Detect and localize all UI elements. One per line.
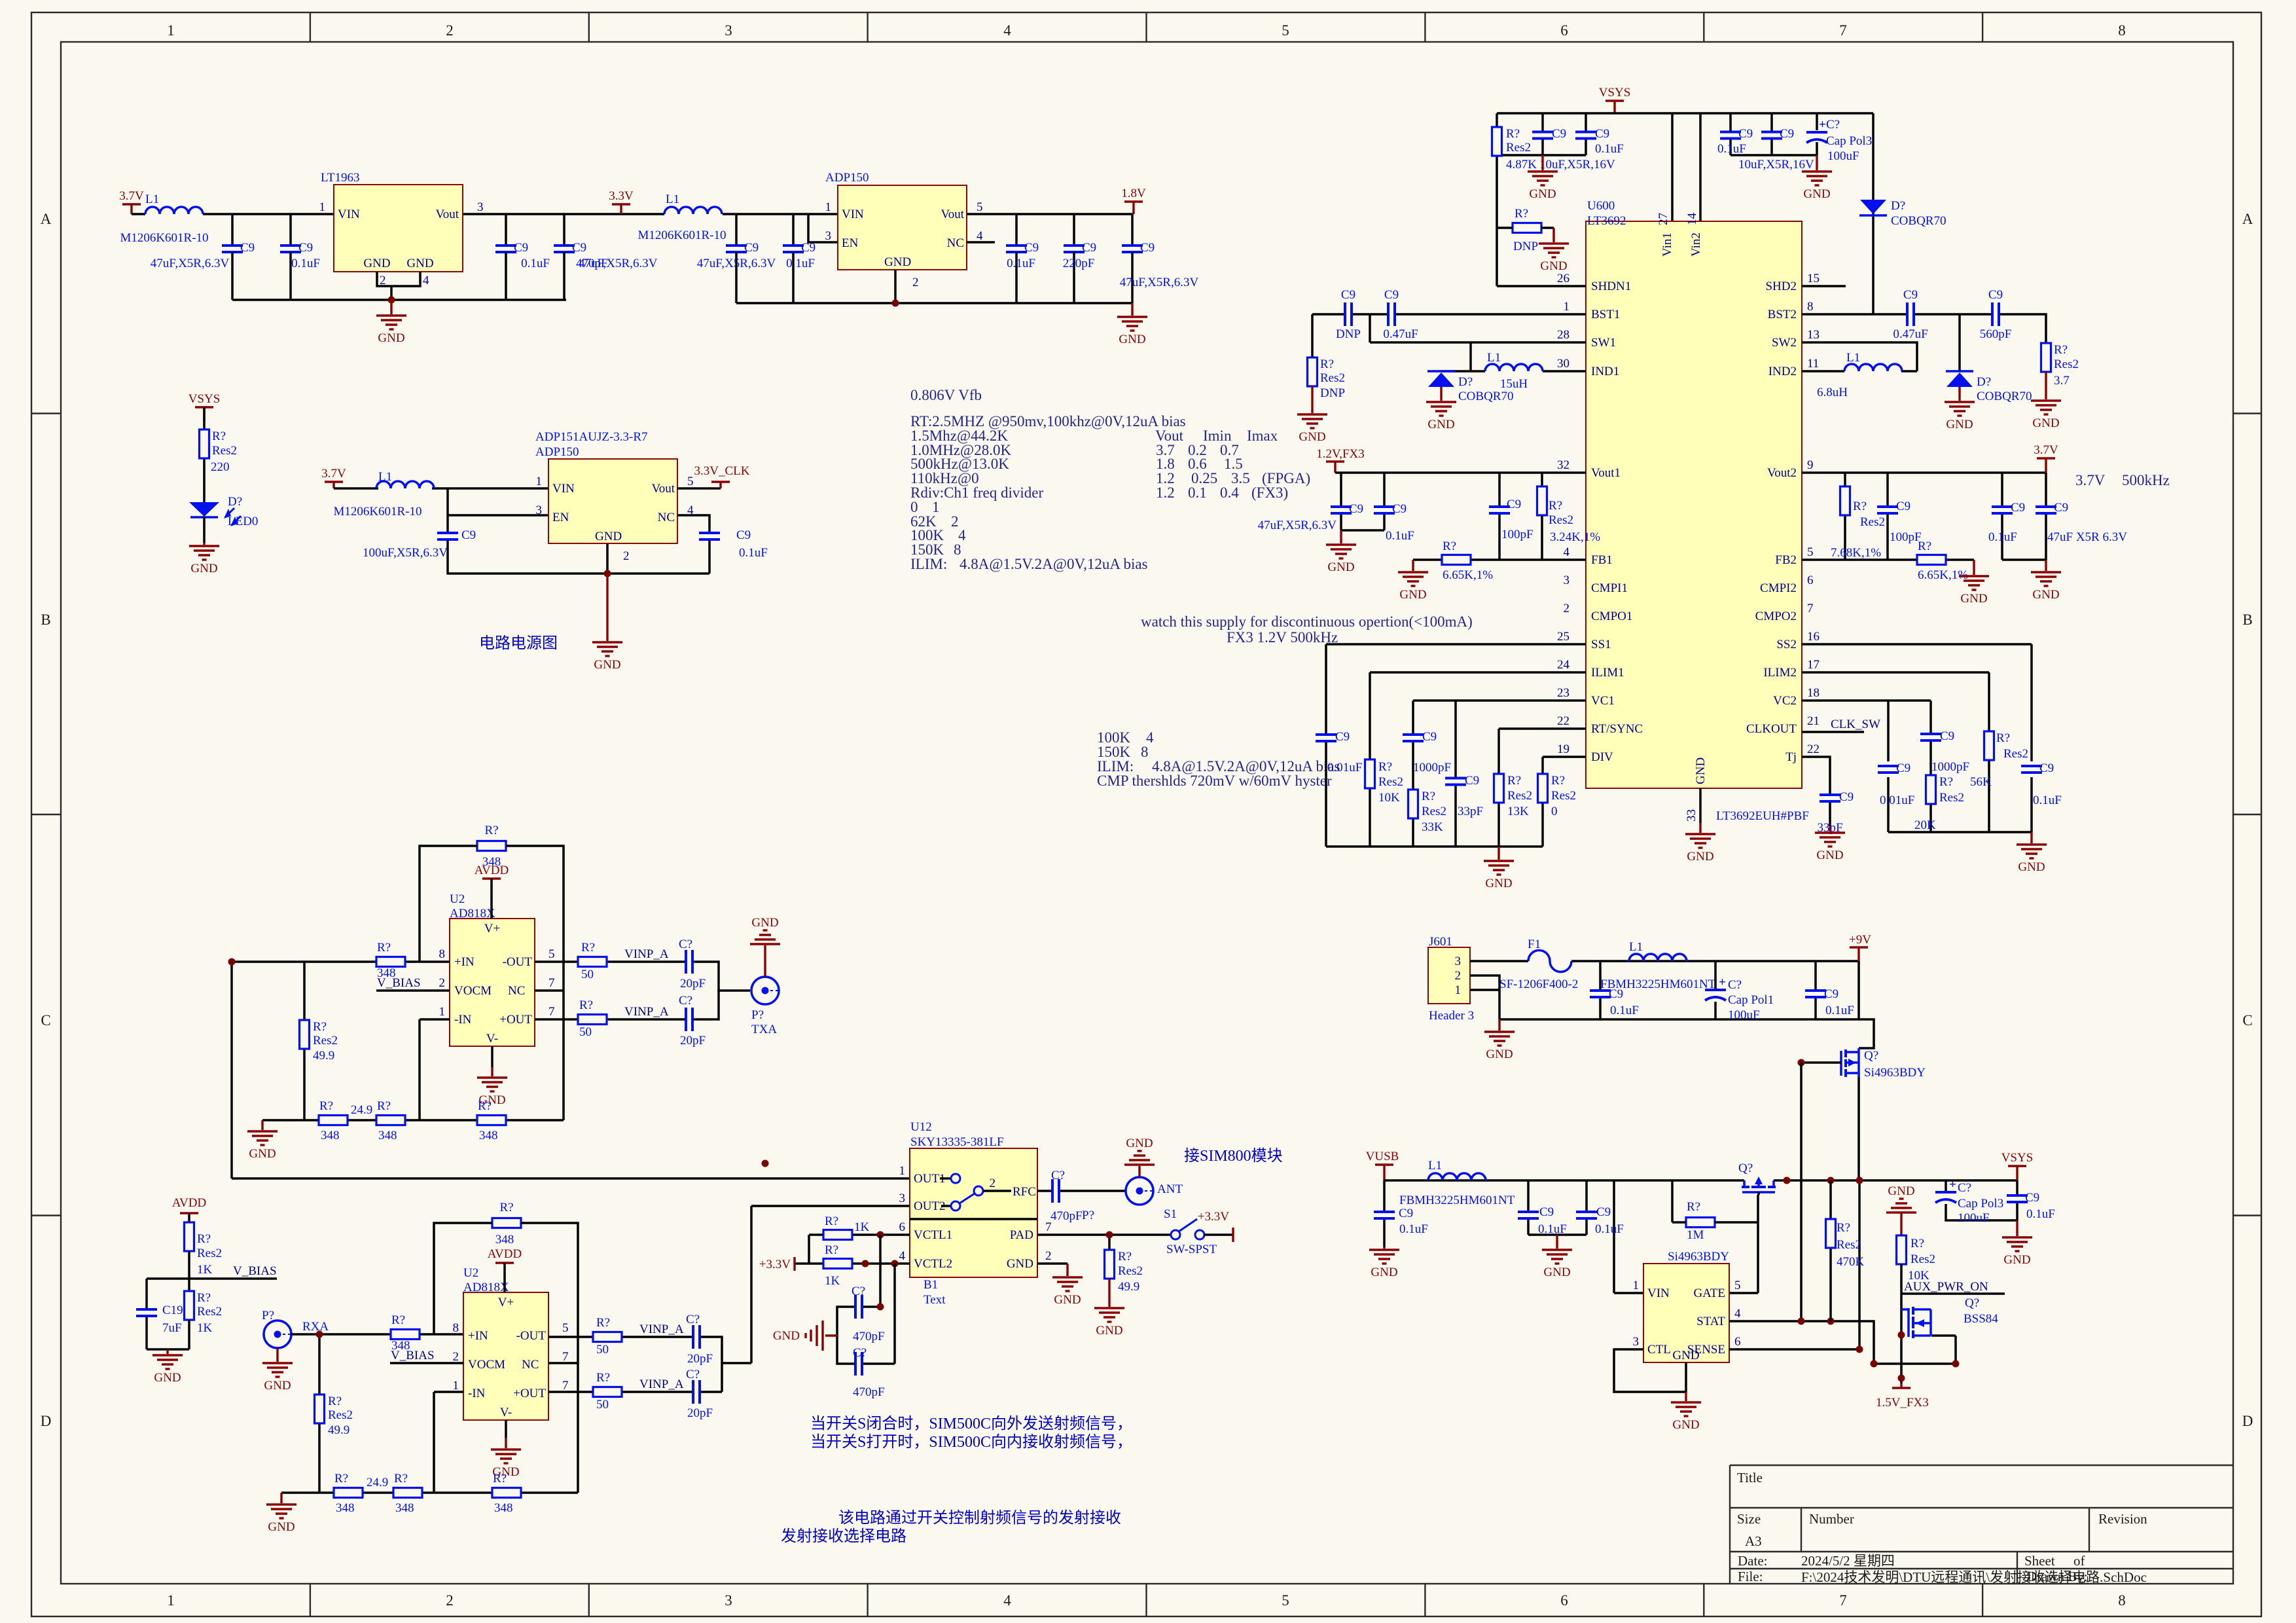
power port VSYS main bbox=[1605, 100, 1624, 101]
junction +IN bbox=[228, 958, 236, 966]
svg-text:0.1: 0.1 bbox=[1188, 484, 1207, 501]
svg-text:M1206K601R-10: M1206K601R-10 bbox=[120, 231, 208, 245]
svg-text:U2: U2 bbox=[463, 1266, 478, 1280]
svg-text:8: 8 bbox=[2118, 22, 2126, 39]
capacitor C9 10uF right bbox=[1760, 131, 1784, 140]
svg-text:25: 25 bbox=[1557, 630, 1570, 644]
svg-text:348: 348 bbox=[395, 1501, 414, 1515]
load switch U Si4963BDY bbox=[1643, 1264, 1729, 1362]
ground bottom-right rail bbox=[2030, 832, 2032, 843]
resistor R? 50 lower1 bbox=[593, 1332, 622, 1342]
svg-text:GND: GND bbox=[595, 530, 622, 543]
svg-text:22: 22 bbox=[1557, 714, 1570, 728]
wire S1 to 3.3V bbox=[1204, 1233, 1233, 1236]
resistor R? 348 feedback lower bbox=[492, 1218, 521, 1228]
svg-text:49.9: 49.9 bbox=[328, 1423, 350, 1437]
svg-text:0.1uF: 0.1uF bbox=[1386, 529, 1414, 543]
power port 1.8V bbox=[1124, 200, 1143, 202]
svg-text:R?: R? bbox=[313, 1020, 327, 1034]
svg-text:47uF,X5R,6.3V: 47uF,X5R,6.3V bbox=[579, 257, 658, 270]
svg-text:1: 1 bbox=[1564, 300, 1570, 314]
wire 470pF cluster bbox=[837, 1235, 895, 1364]
svg-text:Res2: Res2 bbox=[1422, 805, 1446, 818]
svg-text:P?: P? bbox=[751, 1008, 764, 1022]
wire DIV bbox=[1326, 757, 1586, 847]
capacitor C9 100uF bbox=[436, 532, 459, 541]
svg-text:VSYS: VSYS bbox=[188, 392, 221, 406]
svg-text:SKY13335-381LF: SKY13335-381LF bbox=[910, 1135, 1004, 1149]
svg-text:SF-1206F400-2: SF-1206F400-2 bbox=[1499, 977, 1578, 991]
svg-text:VUSB: VUSB bbox=[1366, 1150, 1399, 1163]
svg-text:GATE: GATE bbox=[1693, 1286, 1725, 1300]
wire -IN bbox=[420, 1019, 450, 1120]
svg-text:Res2: Res2 bbox=[1378, 775, 1403, 789]
wire SS2 bbox=[1802, 644, 2032, 832]
svg-text:6.8uH: 6.8uH bbox=[1817, 386, 1848, 399]
resistor R? 50 upper2 bbox=[578, 1015, 607, 1025]
junction VCTL2 bbox=[862, 1260, 869, 1267]
svg-text:1K: 1K bbox=[197, 1321, 213, 1335]
svg-text:IND2: IND2 bbox=[1768, 365, 1797, 378]
wire NC stub bbox=[535, 989, 564, 992]
capacitor C9 47uF input bbox=[231, 214, 234, 246]
svg-text:R?: R? bbox=[596, 1371, 610, 1385]
svg-text:32: 32 bbox=[1557, 458, 1570, 472]
wire Q1 gate bbox=[1801, 1061, 1841, 1064]
power port VSYS led bbox=[195, 406, 213, 408]
svg-text:VIN: VIN bbox=[842, 208, 864, 221]
resistor R? 348 input upper bbox=[376, 957, 405, 967]
svg-text:0.1uF: 0.1uF bbox=[1595, 1222, 1624, 1236]
svg-text:1: 1 bbox=[899, 1164, 906, 1178]
svg-text:Date:: Date: bbox=[1738, 1553, 1767, 1569]
svg-text:R?: R? bbox=[1551, 774, 1565, 788]
svg-text:2: 2 bbox=[1045, 1249, 1052, 1263]
svg-text:CMPO2: CMPO2 bbox=[1755, 610, 1797, 623]
svg-text:C: C bbox=[41, 1012, 50, 1029]
svg-text:C19: C19 bbox=[162, 1304, 183, 1317]
ground below LT1963 bbox=[390, 300, 392, 314]
ground vusb a bbox=[1383, 1247, 1385, 1249]
svg-text:SHD2: SHD2 bbox=[1765, 280, 1797, 293]
svg-text:GND: GND bbox=[1007, 1257, 1033, 1271]
svg-text:Rdiv:Ch1 freq divider: Rdiv:Ch1 freq divider bbox=[910, 484, 1043, 501]
svg-text:+: + bbox=[1719, 976, 1726, 989]
svg-text:R?: R? bbox=[1918, 539, 1931, 553]
svg-text:C9: C9 bbox=[744, 241, 759, 255]
wire SENSE row bbox=[1729, 1180, 1859, 1349]
ground pin33 bbox=[1699, 823, 1701, 833]
svg-text:发射接收选择电路: 发射接收选择电路 bbox=[781, 1527, 906, 1545]
power port AVDD lower bbox=[495, 1262, 514, 1264]
svg-text:R?: R? bbox=[328, 1395, 342, 1408]
svg-text:5: 5 bbox=[548, 947, 555, 961]
svg-text:Cap Pol3: Cap Pol3 bbox=[1958, 1197, 2003, 1211]
junction VCTL1 bbox=[877, 1231, 884, 1239]
wire Q1 source down bbox=[1857, 1077, 1860, 1180]
connector P? TXA bbox=[751, 977, 779, 1004]
svg-text:33: 33 bbox=[1685, 809, 1698, 822]
svg-text:STAT: STAT bbox=[1696, 1315, 1725, 1328]
svg-text:-OUT: -OUT bbox=[516, 1329, 547, 1343]
svg-text:R?: R? bbox=[1687, 1200, 1700, 1214]
svg-text:0.1uF: 0.1uF bbox=[521, 257, 550, 270]
svg-text:0: 0 bbox=[1551, 805, 1558, 818]
svg-text:0.1uF: 0.1uF bbox=[1595, 142, 1624, 156]
svg-text:Q?: Q? bbox=[1864, 1049, 1878, 1063]
wire PAD bbox=[1037, 1235, 1171, 1280]
connector P? RXA bbox=[264, 1321, 291, 1348]
ground LED bbox=[203, 543, 205, 545]
capacitor C19 7uF bbox=[135, 1308, 158, 1317]
capacitor C9 0.47uF bst2 bbox=[1906, 301, 1915, 327]
svg-text:3.7V: 3.7V bbox=[119, 189, 144, 203]
svg-text:C?: C? bbox=[1958, 1181, 1971, 1195]
svg-text:M1206K601R-10: M1206K601R-10 bbox=[637, 228, 726, 242]
svg-text:7: 7 bbox=[1807, 602, 1814, 615]
svg-text:C9: C9 bbox=[1596, 1205, 1611, 1219]
svg-text:+3.3V: +3.3V bbox=[1198, 1210, 1229, 1224]
svg-text:NC: NC bbox=[947, 236, 964, 250]
svg-text:3: 3 bbox=[477, 200, 484, 214]
svg-text:5: 5 bbox=[687, 475, 694, 488]
svg-text:7uF: 7uF bbox=[162, 1321, 182, 1335]
svg-text:R?: R? bbox=[391, 1313, 405, 1327]
svg-text:5: 5 bbox=[562, 1321, 569, 1335]
svg-text:Res2: Res2 bbox=[212, 444, 237, 458]
ground J601 bbox=[1498, 1019, 1500, 1030]
svg-text:DNP: DNP bbox=[1513, 240, 1538, 253]
svg-text:当开关S闭合时，SIM500C向外发送射频信号，: 当开关S闭合时，SIM500C向外发送射频信号， bbox=[810, 1415, 1132, 1432]
resistor R? Res2 0 bbox=[1538, 774, 1548, 803]
svg-text:SW2: SW2 bbox=[1772, 336, 1797, 350]
svg-text:49.9: 49.9 bbox=[1118, 1280, 1139, 1294]
ground V- lower bbox=[505, 1420, 507, 1438]
LED D? LED0 bbox=[189, 502, 219, 517]
svg-text:EN: EN bbox=[842, 236, 859, 250]
svg-text:EN: EN bbox=[552, 511, 569, 524]
resistor R? Res2 56K bbox=[1984, 731, 1994, 760]
svg-text:C9: C9 bbox=[2039, 761, 2054, 775]
svg-text:C?: C? bbox=[1826, 118, 1840, 132]
svg-text:Cap Pol1: Cap Pol1 bbox=[1728, 993, 1774, 1007]
svg-text:220: 220 bbox=[211, 460, 230, 474]
svg-text:R?: R? bbox=[1837, 1221, 1850, 1235]
svg-text:4: 4 bbox=[423, 274, 429, 287]
svg-text:Res2: Res2 bbox=[1910, 1252, 1935, 1266]
svg-text:0.1uF: 0.1uF bbox=[1610, 1004, 1639, 1017]
junction cap1 bbox=[877, 1304, 884, 1311]
wire GND pin33 bbox=[1699, 788, 1702, 823]
svg-text:VINP_A: VINP_A bbox=[624, 947, 669, 961]
svg-text:A3: A3 bbox=[1745, 1533, 1762, 1549]
svg-text:0.1uF: 0.1uF bbox=[1717, 142, 1746, 156]
svg-text:348: 348 bbox=[479, 1129, 498, 1142]
svg-text:-OUT: -OUT bbox=[503, 955, 533, 969]
svg-text:3: 3 bbox=[1633, 1335, 1640, 1349]
svg-text:1: 1 bbox=[1633, 1279, 1640, 1292]
svg-text:当开关S打开时，SIM500C向内接收射频信号，: 当开关S打开时，SIM500C向内接收射频信号， bbox=[810, 1433, 1132, 1451]
wire 1K to rail bbox=[188, 1320, 190, 1349]
wire SW1 bbox=[1370, 342, 1586, 371]
capacitor C9 0.1uF vout bbox=[505, 214, 507, 246]
ground left group bbox=[1541, 155, 1543, 170]
svg-text:C: C bbox=[2242, 1012, 2252, 1029]
capacitor C9 1000pF vc1 bbox=[1401, 733, 1425, 742]
svg-text:10uF,X5R,16V: 10uF,X5R,16V bbox=[1738, 158, 1814, 172]
wire CTL tie bbox=[1614, 1349, 1686, 1392]
resistor R? 348 bottom a bbox=[319, 1116, 348, 1125]
svg-text:R?: R? bbox=[579, 998, 593, 1012]
svg-text:B1: B1 bbox=[924, 1278, 938, 1292]
svg-text:VIN: VIN bbox=[1647, 1286, 1670, 1300]
svg-text:C9: C9 bbox=[240, 241, 255, 255]
resistor R? 6.65K fb1 bbox=[1442, 555, 1471, 565]
capacitor C9 0.1uF adp151 bbox=[698, 532, 721, 541]
svg-text:VC2: VC2 bbox=[1773, 694, 1797, 708]
svg-text:560pF: 560pF bbox=[1980, 327, 2012, 341]
svg-text:348: 348 bbox=[336, 1501, 355, 1515]
wire Vout1 bbox=[1335, 473, 1586, 560]
capacitor C9 47uF vout1 bbox=[1329, 505, 1353, 515]
svg-text:Tj: Tj bbox=[1785, 750, 1797, 764]
svg-text:1M: 1M bbox=[1687, 1228, 1704, 1242]
svg-text:C9: C9 bbox=[1082, 241, 1096, 255]
wire RXA to +IN bbox=[291, 1334, 463, 1493]
svg-text:R?: R? bbox=[212, 429, 226, 443]
svg-text:R?: R? bbox=[334, 1472, 348, 1486]
svg-text:4.87K: 4.87K bbox=[1506, 158, 1537, 172]
inductor L1 FBMH3225HM601NT vusb bbox=[1428, 1173, 1486, 1180]
svg-text:watch this supply for disconti: watch this supply for discontinuous oper… bbox=[1141, 613, 1473, 630]
svg-text:Res2: Res2 bbox=[1837, 1238, 1861, 1252]
svg-text:FB2: FB2 bbox=[1775, 553, 1797, 567]
svg-text:R?: R? bbox=[1378, 760, 1392, 774]
svg-text:21: 21 bbox=[1807, 714, 1820, 728]
ground bst1 dnp bbox=[1311, 386, 1313, 413]
svg-text:1000pF: 1000pF bbox=[1931, 760, 1969, 774]
header J601 Header 3 bbox=[1428, 947, 1470, 1004]
resistor R? Res2 4.87K bbox=[1492, 127, 1502, 156]
svg-text:C?: C? bbox=[679, 938, 692, 951]
net label AUX_PWR_ON bbox=[1901, 1292, 2005, 1295]
svg-text:23: 23 bbox=[1557, 686, 1570, 700]
svg-text:V_BIAS: V_BIAS bbox=[233, 1264, 277, 1278]
svg-text:1: 1 bbox=[439, 1005, 446, 1019]
svg-text:A: A bbox=[2242, 211, 2253, 227]
svg-text:1.2: 1.2 bbox=[1156, 484, 1175, 501]
svg-text:47uF,X5R,6.3V: 47uF,X5R,6.3V bbox=[1258, 519, 1337, 532]
capacitor C9 0.1uF vout1 bbox=[1372, 505, 1396, 515]
fuse F1 SF-1206F400-2 bbox=[1528, 951, 1571, 972]
svg-text:6.65K,1%: 6.65K,1% bbox=[1443, 568, 1493, 582]
ground ADP150 rail bbox=[1131, 303, 1133, 316]
svg-text:CLKOUT: CLKOUT bbox=[1746, 722, 1797, 736]
svg-text:+IN: +IN bbox=[454, 955, 475, 969]
svg-text:Imax: Imax bbox=[1247, 428, 1278, 444]
svg-text:3: 3 bbox=[825, 229, 832, 243]
svg-text:C9: C9 bbox=[1940, 729, 1954, 743]
svg-text:3.7V: 3.7V bbox=[2075, 472, 2106, 488]
svg-text:CTL: CTL bbox=[1647, 1343, 1671, 1357]
resistor R? Res2 DNP bbox=[1308, 357, 1318, 386]
svg-text:-IN: -IN bbox=[468, 1387, 486, 1400]
svg-text:R?: R? bbox=[394, 1472, 408, 1486]
svg-text:V_BIAS: V_BIAS bbox=[377, 976, 421, 990]
svg-text:3.7V: 3.7V bbox=[2034, 443, 2058, 457]
wire FB1 bbox=[1413, 558, 1586, 561]
svg-text:PAD: PAD bbox=[1010, 1228, 1033, 1242]
svg-text:4: 4 bbox=[1564, 545, 1570, 559]
svg-text:GND: GND bbox=[1694, 757, 1708, 784]
svg-text:8: 8 bbox=[1141, 744, 1149, 760]
svg-text:14: 14 bbox=[1685, 213, 1699, 226]
svg-text:ADP150: ADP150 bbox=[535, 445, 579, 459]
wire GND pin sky bbox=[1037, 1262, 1067, 1265]
svg-text:5: 5 bbox=[1734, 1279, 1741, 1292]
wire -OUT path lower bbox=[548, 1206, 751, 1392]
svg-text:L1: L1 bbox=[378, 470, 392, 484]
svg-text:20pF: 20pF bbox=[687, 1406, 713, 1420]
svg-text:L1: L1 bbox=[666, 192, 679, 206]
power port +3.3V vctl2 bbox=[793, 1257, 795, 1271]
svg-text:C9: C9 bbox=[1738, 127, 1753, 141]
diode D? COBQR70 sw2 bbox=[1946, 371, 1973, 387]
ground adp151 bbox=[606, 574, 608, 641]
wire SHDN1 bbox=[1497, 285, 1586, 287]
resistor R? Res2 3.24K bbox=[1537, 486, 1547, 515]
svg-text:50: 50 bbox=[596, 1343, 609, 1357]
resistor R? Res2 3.7 bbox=[2041, 343, 2051, 372]
svg-text:Vin1: Vin1 bbox=[1660, 232, 1674, 257]
svg-text:16: 16 bbox=[1807, 630, 1820, 644]
transistor Q? si4963 vusb bbox=[1743, 1180, 1746, 1187]
svg-text:24.9: 24.9 bbox=[351, 1103, 372, 1117]
capacitor C? Cap Pol3 100uF bbox=[1805, 130, 1829, 142]
svg-text:0.1uF: 0.1uF bbox=[2033, 793, 2062, 807]
wire SHD2 bbox=[1802, 285, 1846, 287]
svg-text:2: 2 bbox=[453, 1350, 459, 1364]
svg-text:AD818X: AD818X bbox=[450, 907, 495, 921]
svg-text:R?: R? bbox=[478, 1099, 492, 1113]
ground V- upper bbox=[491, 1046, 493, 1067]
wire NC stub lower bbox=[548, 1362, 578, 1364]
svg-text:C9: C9 bbox=[1552, 127, 1566, 141]
svg-text:Res2: Res2 bbox=[313, 1034, 338, 1048]
svg-text:50: 50 bbox=[596, 1398, 609, 1412]
svg-text:3.7V: 3.7V bbox=[321, 467, 346, 481]
svg-text:B: B bbox=[41, 611, 50, 628]
svg-text:TXA: TXA bbox=[751, 1023, 777, 1036]
wire J601 pins bbox=[1470, 961, 1874, 1048]
svg-text:+: + bbox=[1819, 118, 1826, 132]
wire ILIM2 bbox=[1802, 672, 1989, 832]
svg-text:22: 22 bbox=[1807, 742, 1820, 756]
svg-text:L1: L1 bbox=[1629, 940, 1643, 954]
power port AVDD upper bbox=[482, 877, 501, 879]
inductor L1 6.8uH bbox=[1844, 364, 1902, 371]
svg-text:Res2: Res2 bbox=[1506, 141, 1531, 155]
svg-text:D?: D? bbox=[1891, 199, 1905, 213]
svg-text:File:: File: bbox=[1738, 1569, 1763, 1584]
ground loadswitch bbox=[1685, 1392, 1687, 1401]
power port +9V bbox=[1850, 946, 1868, 948]
svg-text:500kHz: 500kHz bbox=[2122, 472, 2170, 488]
junction vusb rail dots bbox=[1784, 1177, 1791, 1184]
svg-text:V_BIAS: V_BIAS bbox=[391, 1349, 435, 1362]
svg-text:47uF,X5R,6.3V: 47uF,X5R,6.3V bbox=[697, 257, 776, 270]
svg-text:VINP_A: VINP_A bbox=[639, 1322, 684, 1336]
wire OUT2 jog bbox=[751, 1205, 910, 1207]
capacitor C? 20pF 2 bbox=[685, 1006, 694, 1032]
svg-text:50: 50 bbox=[579, 1025, 592, 1039]
svg-text:100pF: 100pF bbox=[1890, 530, 1922, 544]
wire VCTL2 bbox=[795, 1262, 910, 1265]
power port +3.3V s1 bbox=[1232, 1228, 1234, 1242]
svg-text:3.24K,1%: 3.24K,1% bbox=[1550, 530, 1600, 544]
svg-text:8: 8 bbox=[2118, 1592, 2126, 1609]
svg-text:L1: L1 bbox=[1487, 351, 1501, 365]
wire -IN lower bbox=[434, 1392, 463, 1493]
svg-text:C9: C9 bbox=[2025, 1191, 2039, 1205]
svg-text:Res2: Res2 bbox=[197, 1305, 222, 1319]
svg-text:100uF: 100uF bbox=[1728, 1008, 1760, 1022]
svg-text:20pF: 20pF bbox=[687, 1352, 713, 1366]
svg-text:Title: Title bbox=[1737, 1470, 1763, 1486]
svg-text:B: B bbox=[2242, 611, 2252, 628]
svg-text:V-: V- bbox=[500, 1406, 512, 1419]
svg-text:10uF,X5R,16V: 10uF,X5R,16V bbox=[1539, 158, 1615, 172]
ground above 10K bbox=[1886, 1184, 1916, 1213]
svg-text:C?: C? bbox=[686, 1313, 700, 1326]
capacitor C? 470pF b bbox=[854, 1351, 863, 1377]
op-amp U2 AD818X upper bbox=[450, 919, 535, 1046]
svg-text:26: 26 bbox=[1557, 272, 1570, 285]
svg-text:3.7: 3.7 bbox=[2054, 374, 2070, 388]
svg-text:100uF: 100uF bbox=[1827, 149, 1859, 163]
power port 3.7V adp151 bbox=[325, 481, 343, 483]
svg-text:SS1: SS1 bbox=[1591, 638, 1611, 651]
svg-text:49.9: 49.9 bbox=[313, 1049, 334, 1063]
svg-text:D?: D? bbox=[1977, 375, 1991, 389]
svg-text:CMPO1: CMPO1 bbox=[1591, 610, 1632, 623]
svg-text:15uH: 15uH bbox=[1500, 377, 1528, 391]
svg-text:R?: R? bbox=[1549, 499, 1562, 513]
resistor R? 348 feedback top bbox=[477, 841, 506, 851]
resistor R? Res2 20K bbox=[1926, 775, 1936, 804]
svg-text:AD818X: AD818X bbox=[463, 1281, 509, 1294]
resistor R? 6.65K fb2 bbox=[1917, 555, 1946, 565]
ground bottom-left rail bbox=[1498, 847, 1499, 860]
wire FB2 bbox=[1802, 558, 1974, 561]
svg-text:348: 348 bbox=[482, 855, 501, 869]
svg-text:COBQR70: COBQR70 bbox=[1977, 390, 2032, 403]
inductor L1 M1206K601R-10 bbox=[145, 207, 203, 214]
svg-text:2: 2 bbox=[439, 976, 446, 990]
svg-text:C9: C9 bbox=[1539, 1205, 1554, 1219]
wire ILIM1 bbox=[1370, 672, 1586, 847]
svg-text:C9: C9 bbox=[1896, 500, 1910, 513]
svg-text:C9: C9 bbox=[1595, 127, 1609, 141]
svg-text:5: 5 bbox=[1807, 545, 1814, 559]
svg-text:C9: C9 bbox=[1988, 288, 2003, 302]
power port 3.7V bbox=[122, 203, 141, 205]
svg-text:56K: 56K bbox=[1970, 775, 1992, 789]
svg-text:R?: R? bbox=[1910, 1237, 1924, 1250]
power port 1.5V_FX3 bbox=[1892, 1387, 1910, 1389]
svg-text:2: 2 bbox=[623, 549, 630, 563]
switch arm inside U12 bbox=[940, 1177, 951, 1180]
